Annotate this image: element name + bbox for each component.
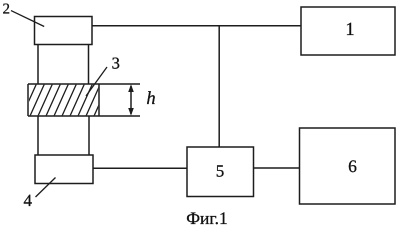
dimension arrowhead up [128, 84, 134, 92]
lower stem left wall [37, 116, 39, 155]
dimension arrow line h [130, 86, 132, 114]
svg-text:h: h [146, 89, 155, 109]
svg-text:6: 6 [348, 156, 357, 176]
box 4 [35, 155, 93, 184]
leader line of label 3 [86, 67, 107, 96]
specimen 3 right edge [98, 84, 100, 116]
specimen 3 bottom line with extension [28, 115, 140, 117]
block 6 [300, 128, 396, 204]
hatching of specimen 3 [14, 84, 108, 116]
upper stem right wall [88, 45, 90, 85]
dimension arrowhead down [128, 108, 134, 116]
leader line of label 4 [36, 178, 56, 198]
leader line of label 2 [11, 11, 44, 27]
svg-text:1: 1 [345, 20, 354, 40]
svg-text:Фиг.1: Фиг.1 [186, 208, 228, 226]
svg-text:3: 3 [112, 54, 120, 73]
svg-text:4: 4 [23, 191, 32, 210]
wire: junction branch down to block5 [218, 26, 220, 147]
lower stem right wall [88, 116, 90, 155]
block 1 [301, 7, 395, 55]
upper stem left wall [37, 45, 39, 85]
transducer box 2 [35, 17, 93, 45]
specimen 3 top line with extension [28, 83, 140, 85]
specimen 3 left edge [27, 84, 29, 116]
block 5 [187, 147, 254, 197]
wire: box2 to block1 [92, 25, 301, 27]
wire: block5 to block6 [254, 167, 300, 169]
svg-text:5: 5 [216, 162, 225, 181]
wire: box4 to block5 [93, 167, 187, 169]
svg-text:2: 2 [2, 1, 10, 17]
